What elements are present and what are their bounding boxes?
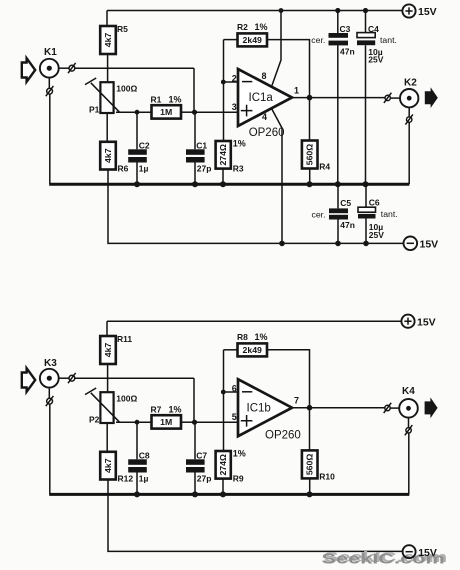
watermark: [322, 548, 448, 566]
pin 2 label: [232, 74, 237, 84]
K4 output BNC connector: [399, 386, 418, 418]
pin 7 label: [294, 396, 299, 406]
resistor R8: [237, 332, 268, 356]
svg-text:274Ω: 274Ω: [218, 454, 228, 475]
svg-text:R1: R1: [151, 94, 162, 104]
wire K2 shield to ground rail: [408, 122, 410, 184]
svg-text:IC1b: IC1b: [247, 403, 271, 415]
wire inverting node vertical (R2 to R3): [223, 40, 225, 141]
svg-text:4: 4: [262, 112, 267, 122]
node pin6 junction: [221, 390, 226, 395]
pin 6 label: [232, 384, 237, 394]
wire R7 to node: [181, 421, 195, 423]
node C3/C5 ground: [335, 181, 341, 187]
svg-text:C6: C6: [369, 197, 380, 207]
output arrow K4: [425, 397, 438, 418]
pin 4 label: [262, 112, 267, 122]
svg-text:OP260: OP260: [265, 429, 301, 441]
svg-text:100Ω: 100Ω: [116, 394, 137, 404]
wire R12 to -15V rail and -15V rail bottom: [108, 480, 403, 552]
input arrow K3: [22, 368, 35, 392]
K1 input BNC connector: [40, 47, 59, 78]
node R10 ground: [307, 491, 313, 497]
svg-text:R5: R5: [117, 24, 128, 34]
svg-text:C1: C1: [196, 140, 207, 150]
+15V supply symbol top: [402, 4, 436, 18]
wire K1 input line: [75, 67, 194, 69]
svg-text:560Ω: 560Ω: [305, 454, 315, 475]
pin 1 label: [294, 86, 299, 96]
svg-text:OP260: OP260: [249, 127, 285, 139]
resistor R3: [216, 139, 246, 185]
svg-text:1%: 1%: [233, 449, 246, 459]
potentiometer P2: [85, 379, 137, 452]
terminal K1 bottom: [46, 86, 54, 96]
capacitor C1: [186, 112, 211, 184]
svg-text:1%: 1%: [169, 94, 182, 104]
svg-text:1M: 1M: [160, 107, 172, 117]
wire K4 shield stub: [408, 418, 410, 428]
node C2 ground: [134, 181, 140, 187]
capacitor C3: [311, 11, 354, 185]
svg-text:2: 2: [232, 74, 237, 84]
svg-text:27p: 27p: [197, 164, 212, 174]
resistor R11: [100, 321, 132, 378]
resistor R2: [237, 22, 268, 46]
pin 8 wire: [272, 11, 282, 87]
capacitor C5: [312, 184, 355, 243]
node C7 ground: [192, 491, 198, 497]
svg-text:R6: R6: [118, 164, 129, 174]
resistor R7: [151, 404, 182, 428]
terminal K2 bottom: [405, 114, 413, 124]
+15V supply symbol bottom: [401, 315, 435, 329]
svg-text:274Ω: 274Ω: [218, 144, 228, 165]
terminal K2 left: [384, 93, 392, 103]
wire P1 wiper to R1: [116, 111, 152, 113]
wire node to pin 3: [195, 111, 239, 113]
wire K2 shield stub: [408, 107, 410, 117]
-15V supply symbol top: [404, 237, 439, 251]
svg-text:R4: R4: [319, 162, 330, 172]
wire op-amp output IC1b: [292, 407, 385, 409]
svg-text:27p: 27p: [197, 474, 212, 484]
wire K3 branch down to +input node: [193, 378, 195, 422]
svg-text:K4: K4: [402, 386, 415, 397]
wire R1 to node: [181, 111, 195, 113]
terminal K3 bottom: [46, 396, 54, 406]
svg-text:K1: K1: [44, 47, 57, 58]
svg-text:R12: R12: [118, 474, 134, 484]
svg-text:15V: 15V: [418, 547, 437, 559]
terminal K3 right: [68, 373, 76, 383]
wire pin 6 stub: [224, 391, 239, 393]
wire K4 shield to ground rail: [408, 433, 410, 494]
capacitor C2: [128, 112, 150, 184]
node junction C4 on +15V rail: [363, 8, 368, 13]
node wiper/C8 junction: [135, 420, 140, 425]
wire R8 left lead: [224, 349, 238, 351]
resistor R5: [100, 11, 128, 69]
op-amp IC1b: [238, 379, 301, 441]
capacitor C8: [128, 422, 150, 494]
pin 8 label: [262, 71, 267, 81]
-15V supply symbol bottom: [403, 545, 437, 559]
node R4 ground: [307, 181, 313, 187]
wire R2 left lead: [224, 39, 238, 41]
node +input junction: [192, 110, 197, 115]
wire R2 right lead to output node: [267, 40, 310, 98]
pin 4 wire: [272, 108, 283, 243]
wire K3 shield to ground rail: [49, 404, 51, 494]
svg-text:8: 8: [262, 71, 267, 81]
resistor R9: [216, 449, 246, 495]
svg-text:tant.: tant.: [381, 209, 398, 219]
node pin4 on -15V rail: [279, 241, 285, 247]
svg-text:C4: C4: [368, 24, 379, 34]
node output junction: [307, 95, 313, 101]
node pin2 junction: [221, 80, 226, 85]
svg-text:4k7: 4k7: [103, 148, 113, 163]
wire terminal to K2: [390, 97, 400, 99]
wire node to pin 5: [195, 421, 239, 423]
svg-text:3: 3: [232, 102, 237, 112]
wire K1 to terminal: [59, 67, 69, 69]
pin 5 label: [232, 412, 237, 422]
capacitor C6: [358, 184, 398, 243]
node +input junction IC1b: [192, 420, 197, 425]
wire op-amp output: [292, 97, 385, 99]
node R9 ground: [220, 491, 226, 497]
node C4/C6 ground: [363, 181, 369, 187]
capacitor C4: [357, 11, 397, 185]
op-amp IC1a: [238, 69, 292, 139]
svg-text:47n: 47n: [340, 47, 355, 57]
svg-text:25V: 25V: [368, 55, 383, 65]
svg-text:R9: R9: [233, 473, 244, 483]
svg-text:5: 5: [232, 412, 237, 422]
svg-text:IC1a: IC1a: [249, 92, 274, 104]
potentiometer P1: [85, 69, 137, 142]
wire K1 shield stub: [48, 78, 50, 89]
svg-text:K2: K2: [404, 78, 417, 89]
svg-text:P1: P1: [89, 105, 100, 115]
ground rail top: [49, 183, 409, 186]
node R3 ground: [220, 181, 226, 187]
wire +15V top rail: [107, 10, 402, 12]
svg-text:1%: 1%: [169, 404, 182, 414]
node C1 ground: [192, 181, 198, 187]
svg-text:560Ω: 560Ω: [305, 144, 315, 165]
resistor R1: [151, 94, 182, 118]
svg-text:R8: R8: [237, 332, 248, 342]
wire R8 right lead to output node: [267, 350, 310, 408]
svg-text:100Ω: 100Ω: [116, 84, 137, 94]
K3 input BNC connector: [40, 358, 59, 388]
svg-text:R3: R3: [233, 163, 244, 173]
svg-text:15V: 15V: [420, 239, 439, 251]
svg-text:tant.: tant.: [380, 35, 397, 45]
wire +15V bottom rail: [107, 320, 401, 322]
terminal K4 left: [384, 403, 392, 413]
svg-text:4k7: 4k7: [103, 33, 113, 48]
svg-text:P2: P2: [89, 415, 100, 425]
svg-text:C7: C7: [196, 450, 207, 460]
terminal K4 bottom: [405, 425, 413, 435]
svg-text:1%: 1%: [233, 139, 246, 149]
wire P2 wiper to R7: [116, 421, 152, 423]
node C6 on -15V rail: [363, 241, 369, 247]
svg-text:C2: C2: [139, 140, 150, 150]
svg-text:1: 1: [294, 86, 299, 96]
wire R6 to -15V rail and -15V rail top: [108, 170, 403, 244]
terminal K1 right: [68, 63, 76, 73]
svg-text:1M: 1M: [160, 417, 172, 427]
svg-text:2k49: 2k49: [243, 35, 262, 45]
capacitor C7: [186, 422, 211, 494]
svg-text:2k49: 2k49: [243, 345, 262, 355]
ground rail bottom: [49, 493, 409, 496]
svg-text:R11: R11: [117, 334, 132, 344]
svg-text:15V: 15V: [418, 6, 437, 18]
K2 output BNC connector: [400, 78, 418, 108]
wire K1 shield to ground rail: [49, 94, 51, 184]
resistor R4: [302, 98, 331, 185]
resistor R6: [100, 142, 128, 174]
svg-text:7: 7: [294, 396, 299, 406]
input arrow K1: [22, 58, 35, 82]
resistor R10: [302, 408, 335, 495]
svg-text:cer.: cer.: [312, 209, 326, 219]
svg-text:C5: C5: [340, 198, 351, 208]
node wiper/C2 junction: [135, 110, 140, 115]
node junction C3 on +15V rail: [335, 8, 340, 13]
wire K3 to terminal: [59, 377, 69, 379]
wire K3 shield stub: [48, 388, 50, 399]
svg-text:47n: 47n: [340, 220, 355, 230]
svg-text:15V: 15V: [417, 316, 436, 328]
wire K3 input line: [75, 377, 194, 379]
node C5 on -15V rail: [335, 241, 341, 247]
svg-text:6: 6: [232, 384, 237, 394]
svg-text:1%: 1%: [255, 22, 268, 32]
svg-text:1µ: 1µ: [139, 164, 149, 174]
pin 3 label: [232, 102, 237, 112]
svg-text:R10: R10: [319, 471, 335, 481]
svg-text:25V: 25V: [369, 230, 384, 240]
wire terminal to K4: [390, 407, 399, 409]
svg-text:1%: 1%: [255, 332, 268, 342]
node C8 ground: [134, 491, 140, 497]
svg-text:R7: R7: [151, 404, 162, 414]
node junction pin8 on +15V rail: [279, 8, 284, 13]
output arrow K2: [425, 87, 438, 108]
svg-text:4k7: 4k7: [103, 343, 113, 358]
svg-text:C8: C8: [139, 450, 150, 460]
wire pin 2 stub: [224, 81, 239, 83]
wire inverting node vertical (R8 to R9): [223, 350, 225, 451]
node output junction IC1b: [307, 405, 313, 411]
svg-text:1µ: 1µ: [139, 474, 149, 484]
svg-text:K3: K3: [44, 358, 57, 369]
svg-text:C3: C3: [340, 24, 351, 34]
wire K1 branch down to +input node: [193, 68, 195, 112]
svg-text:4k7: 4k7: [103, 458, 113, 473]
resistor R12: [100, 452, 133, 484]
svg-text:R2: R2: [237, 22, 248, 32]
svg-text:cer.: cer.: [311, 35, 325, 45]
